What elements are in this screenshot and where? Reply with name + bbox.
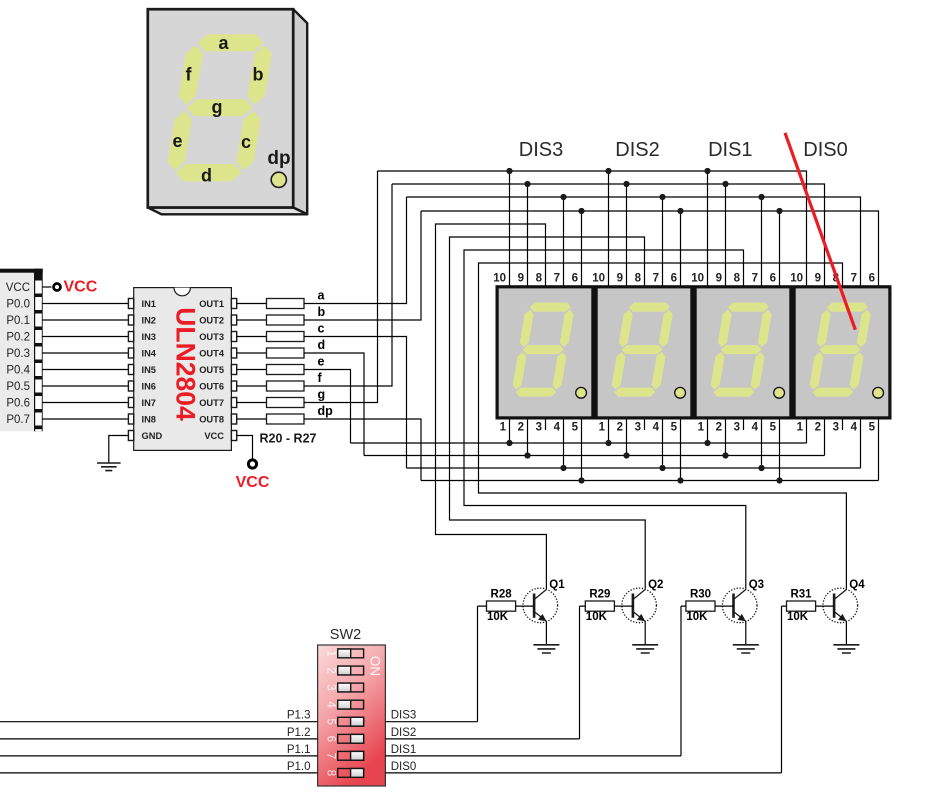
svg-text:9: 9 [716,273,722,285]
svg-text:VCC: VCC [204,431,224,441]
svg-text:10: 10 [493,273,506,285]
svg-text:dp: dp [267,148,290,169]
svg-text:P0.3: P0.3 [6,348,30,360]
svg-text:6: 6 [869,273,875,285]
junction [677,208,683,214]
svg-text:7: 7 [653,273,659,285]
junction [623,181,629,187]
svg-text:GND: GND [142,431,163,441]
U pin OUT5 [231,365,236,375]
U pin IN5 [128,365,133,375]
switch position 7 [338,751,364,760]
wire common-cathode DIS2 (pin 8) to Q2 collector [450,237,646,589]
U pin IN2 [128,315,133,325]
junction [506,168,512,174]
svg-text:P0.4: P0.4 [6,364,30,376]
connector pin P0.5 [35,380,42,393]
wire net g (R26 to top bus) [304,171,378,403]
wire DIS3 [385,721,477,723]
junction [677,477,683,483]
wires P0.0-P0.7 to IN1-IN8 [42,304,128,420]
svg-text:1: 1 [698,422,705,434]
svg-text:7: 7 [324,753,336,759]
svg-text:3: 3 [734,422,740,434]
svg-text:7: 7 [752,273,758,285]
junction [758,465,764,471]
svg-text:ULN2804: ULN2804 [171,307,201,421]
svg-text:10: 10 [790,273,803,285]
resistor R29 10K [580,589,633,739]
wire DIS2 [385,738,579,740]
junction [659,194,665,200]
wire common-cathode DIS3 (pin 8) to Q1 collector [436,224,547,589]
U pin IN6 [128,381,133,391]
svg-text:Q3: Q3 [749,579,764,591]
resistor R23 (segment d) [237,352,267,354]
svg-text:Q4: Q4 [849,579,865,591]
wire DIS1 [385,755,681,757]
transistor Q1 [523,579,565,623]
resistor R28 10K [478,589,535,722]
svg-text:DIS2: DIS2 [391,727,417,739]
wire net f (R25 to top bus) [304,184,392,386]
svg-text:R30: R30 [690,589,711,601]
svg-text:P0.5: P0.5 [6,381,30,393]
svg-text:DIS0: DIS0 [391,761,417,773]
junction [722,452,728,458]
display module DIS2 [592,273,693,434]
svg-text:6: 6 [572,273,578,285]
resistor R24 (segment e) [237,369,267,371]
svg-text:P1.1: P1.1 [287,744,311,756]
svg-text:8: 8 [536,273,543,285]
svg-text:2: 2 [617,422,623,434]
svg-text:IN7: IN7 [142,398,156,408]
connector pin P0.6 [35,396,42,409]
switch position 2 [338,666,364,675]
display module DIS3 [493,273,594,434]
svg-text:b: b [318,305,326,319]
U pin IN3 [128,332,133,342]
transistor Q3 [722,579,764,623]
svg-text:9: 9 [815,273,821,285]
ground (ULN GND) [97,436,128,471]
svg-text:g: g [318,388,326,402]
svg-text:P0.6: P0.6 [6,397,30,409]
svg-text:3: 3 [324,684,336,690]
svg-text:OUT6: OUT6 [199,382,224,392]
svg-text:OUT5: OUT5 [199,365,224,375]
junction [578,477,584,483]
switch position 1 [338,649,364,658]
svg-text:3: 3 [833,422,839,434]
connector pin P0.2 [35,330,42,343]
junction [524,181,530,187]
svg-text:4: 4 [752,422,759,434]
wire P1.3 [0,721,318,723]
svg-text:2: 2 [324,667,336,673]
svg-text:5: 5 [572,422,579,434]
wire net b (R21 to top bus) [304,211,421,320]
svg-text:2: 2 [716,422,722,434]
svg-text:5: 5 [770,422,777,434]
svg-text:10K: 10K [586,611,608,623]
connector pin P0.4 [35,363,42,376]
wire top bus net g (display pins 10) [378,171,807,286]
U pin GND [128,431,133,441]
svg-text:6: 6 [324,736,336,742]
svg-text:OUT8: OUT8 [199,415,224,425]
svg-text:OUT4: OUT4 [199,349,225,359]
svg-text:IN1: IN1 [142,299,156,309]
switch position 4 [338,700,364,709]
svg-text:8: 8 [635,273,642,285]
svg-text:IN2: IN2 [142,316,156,326]
U pin OUT1 [231,299,236,309]
svg-text:R28: R28 [491,589,513,601]
svg-text:Q2: Q2 [648,579,663,591]
wire net c (R22 to bottom bus) [304,337,407,469]
svg-text:d: d [201,166,212,186]
svg-text:IN8: IN8 [142,415,156,425]
wire top bus net f (display pins 9) [392,184,825,286]
display module DIS1 [691,273,792,434]
svg-text:OUT2: OUT2 [199,316,224,326]
junction [776,477,782,483]
svg-text:10: 10 [691,273,704,285]
U pin OUT7 [231,398,236,408]
svg-text:dp: dp [318,404,334,418]
svg-text:P0.0: P0.0 [6,298,30,310]
svg-text:OUT7: OUT7 [199,398,224,408]
svg-text:10: 10 [592,273,605,285]
svg-text:P0.7: P0.7 [6,414,30,426]
svg-text:1: 1 [500,422,507,434]
svg-text:2: 2 [815,422,821,434]
U pin IN7 [128,398,133,408]
svg-text:c: c [241,132,251,152]
junction [605,440,611,446]
svg-text:a: a [218,33,229,53]
wire P1.2 [0,738,318,740]
resistor R20 (segment a) [237,303,267,305]
switch position 5 [338,717,364,726]
7-segment display illustration (big) [148,9,307,214]
wire bottom bus net dp (display pins 5) [421,420,879,481]
ground (Q1 emitter) [533,621,559,653]
wire bottom bus net d (display pins 2) [364,420,825,456]
svg-text:5: 5 [869,422,876,434]
svg-text:VCC: VCC [64,279,98,296]
svg-text:R29: R29 [589,589,610,601]
svg-text:VCC: VCC [236,474,270,491]
svg-text:g: g [212,97,223,117]
svg-text:8: 8 [324,770,336,776]
wire net dp (R27 to bottom bus) [304,419,421,481]
wire net d (R23 to bottom bus) [304,353,364,456]
wire common-cathode DIS1 (pin 8) to Q3 collector [464,250,746,589]
power symbol VCC (connector) [42,279,97,296]
svg-text:IN4: IN4 [142,349,157,359]
svg-text:SW2: SW2 [330,627,361,643]
U pin IN4 [128,348,133,358]
wire common-cathode DIS0 (pin 8) to Q4 collector [479,263,847,589]
junction [704,168,710,174]
svg-text:DIS1: DIS1 [391,744,417,756]
resistor R26 (segment g) [237,402,267,404]
display module DIS0 [790,273,891,434]
svg-text:4: 4 [554,422,561,434]
svg-text:10K: 10K [487,611,509,623]
resistor R22 (segment c) [237,336,267,338]
switch position 3 [338,683,364,692]
wire net a (R20 to top bus) [304,197,407,304]
U pin OUT3 [231,332,236,342]
svg-text:P1.3: P1.3 [287,710,311,722]
svg-text:5: 5 [324,718,336,724]
svg-text:4: 4 [653,422,660,434]
junction [524,452,530,458]
resistor R30 10K [681,589,734,756]
svg-text:ON: ON [367,656,382,676]
svg-text:IN5: IN5 [142,365,156,375]
wire P1.1 [0,755,318,757]
svg-text:R20 - R27: R20 - R27 [260,432,317,446]
svg-text:5: 5 [671,422,678,434]
DIP switch SW2 [318,627,386,786]
wire bottom bus net e (display pins 1) [351,420,807,444]
svg-text:1: 1 [599,422,606,434]
wire net e (R24 to bottom bus) [304,370,351,444]
transistor Q2 [622,579,664,623]
svg-text:P0.1: P0.1 [6,315,30,327]
ground (Q4 emitter) [833,621,859,653]
junction [704,440,710,446]
svg-text:4: 4 [324,701,336,708]
svg-text:a: a [318,289,326,303]
svg-text:8: 8 [734,273,741,285]
svg-text:OUT3: OUT3 [199,332,224,342]
junction [776,208,782,214]
connector pin P0.1 [35,314,42,327]
junction [722,181,728,187]
connector pin P0.7 [35,413,42,426]
svg-text:b: b [253,64,264,84]
resistor R21 (segment b) [237,319,267,321]
svg-text:DIS3: DIS3 [519,139,563,161]
svg-text:3: 3 [536,422,542,434]
junction [560,465,566,471]
U pin OUT4 [231,348,236,358]
wire P1.0 [0,772,318,774]
svg-text:10K: 10K [787,611,809,623]
svg-text:9: 9 [518,273,524,285]
svg-text:OUT1: OUT1 [199,299,224,309]
svg-text:2: 2 [518,422,524,434]
transistor Q4 [823,579,865,623]
svg-text:1: 1 [797,422,804,434]
junction [659,465,665,471]
U pin OUT2 [231,315,236,325]
U pin IN1 [128,299,133,309]
svg-text:IN3: IN3 [142,332,156,342]
svg-text:d: d [318,338,326,352]
svg-text:7: 7 [851,273,857,285]
svg-text:Q1: Q1 [549,579,565,591]
svg-text:4: 4 [851,422,858,434]
wire DIS0 [385,772,781,774]
wire top bus net b (display pins 6) [421,211,879,286]
ground (Q2 emitter) [632,621,658,653]
U pin VCC [231,431,236,441]
svg-text:DIS2: DIS2 [615,139,659,161]
connector pin P0.0 [35,297,42,310]
svg-text:6: 6 [770,273,776,285]
svg-text:7: 7 [554,273,560,285]
red annotation line pointing to DIS0 [785,133,855,330]
svg-text:1: 1 [324,650,336,656]
junction [758,194,764,200]
resistor R31 10K [782,589,835,773]
svg-text:6: 6 [671,273,677,285]
svg-text:IN6: IN6 [142,382,156,392]
driver IC U: ULN2804 [128,288,236,451]
svg-text:DIS0: DIS0 [803,139,847,161]
svg-text:P1.2: P1.2 [287,727,311,739]
svg-text:e: e [318,355,325,369]
port connector P0 [0,269,43,432]
wire top bus net a (display pins 7) [407,197,861,286]
svg-text:P0.2: P0.2 [6,331,30,343]
svg-text:c: c [318,322,325,336]
svg-text:9: 9 [617,273,623,285]
svg-text:e: e [172,131,182,151]
U pin IN8 [128,414,133,424]
svg-text:VCC: VCC [6,282,30,294]
switch position 6 [338,734,364,743]
wire display pin 3 stubs (unconnected commons) [546,420,843,431]
resistor R25 (segment f) [237,385,267,387]
wire bottom bus net c (display pins 4) [407,420,861,469]
svg-text:3: 3 [635,422,641,434]
junction [560,194,566,200]
connector pin P0.3 [35,347,42,360]
junction [506,440,512,446]
connector pin VCC [35,281,42,294]
power symbol VCC (ULN) [236,436,270,492]
svg-text:P1.0: P1.0 [287,761,311,773]
svg-text:f: f [186,64,193,84]
junction [623,452,629,458]
junction [605,168,611,174]
svg-text:DIS3: DIS3 [391,710,417,722]
svg-text:DIS1: DIS1 [708,139,752,161]
ground (Q3 emitter) [733,621,759,653]
resistor R27 (segment dp) [237,418,267,420]
svg-text:10K: 10K [686,611,708,623]
U pin OUT8 [231,414,236,424]
svg-text:R31: R31 [790,589,812,601]
junction [578,208,584,214]
switch position 8 [338,769,364,778]
U pin OUT6 [231,381,236,391]
